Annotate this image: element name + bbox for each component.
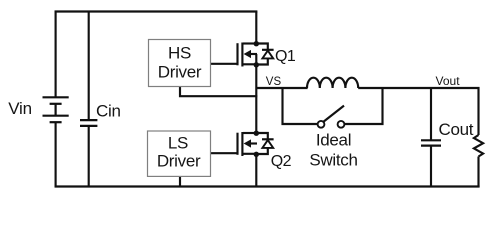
wire Cin branch lower <box>88 126 90 188</box>
wire Cin branch upper <box>88 11 90 121</box>
transistor Q2 <box>238 132 258 156</box>
svg-text:Q2: Q2 <box>271 153 292 170</box>
svg-text:LS: LS <box>168 133 188 152</box>
diode D2 (Q2 body diode) <box>256 133 273 154</box>
wire LS return to ground <box>179 176 181 187</box>
transistor Q1 <box>238 43 258 67</box>
capacitor Cin <box>80 120 97 126</box>
svg-text:Ideal: Ideal <box>316 131 351 150</box>
wire VS horizontal <box>256 87 307 89</box>
wire Vin branch upper <box>55 11 57 98</box>
svg-text:Cin: Cin <box>96 101 121 120</box>
junction dot Q2 drain-diode <box>254 131 259 136</box>
junction dot Q1 source-diode <box>254 62 259 67</box>
wire top rail <box>55 10 258 12</box>
svg-text:Cout: Cout <box>439 120 474 139</box>
wire HS return to VS <box>180 87 257 97</box>
svg-text:Vin: Vin <box>8 99 32 118</box>
inductor L <box>307 78 358 88</box>
svg-text:Vout: Vout <box>436 74 461 88</box>
battery Vin <box>43 97 69 122</box>
wire Q1 drain <box>255 12 257 44</box>
wire HS gate lead <box>211 63 239 65</box>
wire output horizontal <box>358 87 479 89</box>
svg-text:HS: HS <box>168 44 191 63</box>
resistor R load <box>474 135 483 157</box>
junction dot Q2 source-diode <box>254 152 259 157</box>
wire Q1 source / node VS / Q2 drain <box>255 54 257 133</box>
wire load branch upper <box>477 87 479 135</box>
wire switch branch left <box>283 87 318 124</box>
svg-text:Q1: Q1 <box>275 48 296 65</box>
wire bottom rail <box>55 185 480 187</box>
wire Q2 source <box>255 154 257 187</box>
diode D1 (Q1 body diode) <box>256 44 273 65</box>
svg-text:Switch: Switch <box>309 151 357 170</box>
wire load branch lower <box>477 157 479 188</box>
wire Cout branch upper <box>430 87 432 140</box>
box LS Driver <box>148 131 211 176</box>
wire switch branch right <box>345 87 383 124</box>
capacitor Cout <box>421 140 441 145</box>
wire Cout branch lower <box>430 146 432 187</box>
box HS Driver <box>149 40 211 87</box>
svg-text:VS: VS <box>266 76 282 88</box>
svg-text:Driver: Driver <box>157 151 201 170</box>
ideal switch lever <box>324 106 344 122</box>
junction dot Q1 drain-diode <box>254 41 259 46</box>
wire LS gate lead <box>211 152 239 154</box>
wire Vin branch lower <box>55 122 57 187</box>
svg-text:Driver: Driver <box>158 62 202 81</box>
ideal switch contacts <box>318 121 325 128</box>
